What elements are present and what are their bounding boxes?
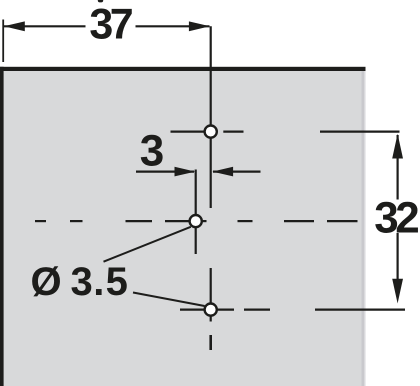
svg-text:3: 3 — [71, 260, 92, 304]
svg-text:Ø: Ø — [30, 260, 60, 304]
svg-text:32: 32 — [374, 194, 418, 243]
svg-text:5: 5 — [106, 260, 128, 304]
svg-text:37: 37 — [89, 1, 132, 49]
svg-text:3: 3 — [140, 127, 163, 176]
